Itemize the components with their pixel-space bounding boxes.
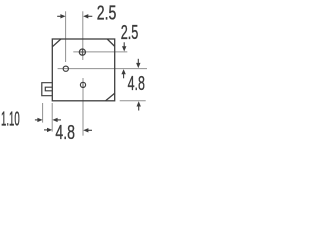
adjuster A circle xyxy=(79,49,85,55)
right 2.5 dim down arrow xyxy=(122,42,126,51)
extension line right of body bottom edge xyxy=(120,100,146,102)
svg-text:4.8: 4.8 xyxy=(128,73,145,95)
bottom 4.8 dim left arrow xyxy=(44,128,52,132)
extension line left of top 2.5 dim xyxy=(65,11,67,62)
right 2.5 dim up arrow xyxy=(121,69,125,78)
extension line right of top 2.5 dim (through adjuster A) xyxy=(82,11,84,60)
side pin terminal xyxy=(42,83,53,96)
chamfer top-left xyxy=(52,39,61,47)
svg-text:2.5: 2.5 xyxy=(121,22,139,44)
1.10 dim left arrow xyxy=(35,118,43,122)
bottom 4.8 dim right arrow xyxy=(83,128,92,132)
pin B circle xyxy=(63,66,68,71)
center line horizontal through pin B xyxy=(58,68,147,70)
center line horizontal through adjuster A xyxy=(73,51,127,53)
1.10 dim right arrow xyxy=(52,118,61,122)
svg-text:2.5: 2.5 xyxy=(97,2,117,24)
svg-text:4.8: 4.8 xyxy=(55,122,75,144)
pin C circle xyxy=(80,82,85,87)
right 4.8 dim down arrow xyxy=(136,59,140,68)
body outline xyxy=(52,39,114,101)
center line vertical through pin C xyxy=(82,78,84,136)
adjuster A cross slot xyxy=(79,49,86,56)
svg-text:1.10: 1.10 xyxy=(1,109,20,131)
extension line left of 1.10 dim xyxy=(42,103,44,123)
top 2.5 dim right arrow xyxy=(83,14,92,18)
extension line below body left edge xyxy=(51,103,53,132)
chamfer bottom-right xyxy=(106,93,115,101)
right 4.8 dim up arrow xyxy=(137,101,141,110)
chamfer top-right xyxy=(107,39,115,46)
pin C slot xyxy=(82,82,84,88)
top 2.5 dim left arrow xyxy=(57,14,65,18)
